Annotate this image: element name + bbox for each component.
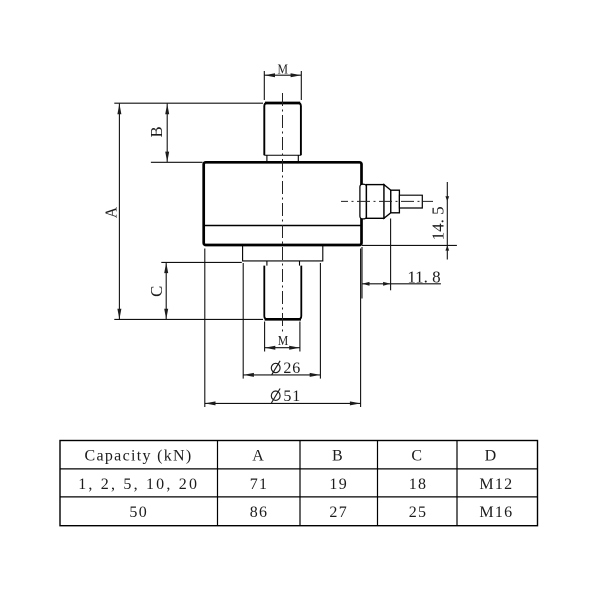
svg-text:86: 86 [250,504,269,521]
dimension 11.8 [362,219,441,299]
svg-text:C: C [147,286,166,297]
svg-text:1, 2, 5, 10, 20: 1, 2, 5, 10, 20 [78,476,199,493]
connector back flange [358,185,367,218]
table grid [60,441,538,526]
top stud neck [267,155,298,162]
svg-text:71: 71 [250,476,269,493]
svg-text:D: D [485,448,498,465]
extension line body top [151,161,203,163]
bottom boss (Ø26 collar) [243,245,323,261]
bottom stud (threaded end M) [264,266,301,320]
dimension M (bottom) [265,322,300,352]
svg-text:50: 50 [129,504,148,521]
svg-text:M16: M16 [479,504,513,521]
table row 1 [78,476,513,493]
svg-text:B: B [332,448,344,465]
svg-text:27: 27 [329,504,348,521]
svg-text:19: 19 [329,476,348,493]
svg-text:A: A [252,448,265,465]
dimension Ø26 [243,263,320,379]
dimension A [102,104,122,320]
load cell body outline [204,162,362,245]
svg-text:51: 51 [283,388,301,405]
svg-text:14. 5: 14. 5 [428,206,447,240]
connector center line [341,200,433,202]
svg-text:18: 18 [409,476,428,493]
connector cable stub [399,195,422,208]
body parting line [204,225,362,227]
extension line boss bottom [161,261,242,263]
svg-text:Capacity (kN): Capacity (kN) [85,448,193,465]
extension line stud top [114,102,263,104]
dimension B [147,104,169,163]
connector taper [384,185,391,219]
svg-text:M12: M12 [479,476,513,493]
vertical center line [282,93,284,333]
svg-text:11. 8: 11. 8 [407,267,440,286]
top stud (threaded end M) [264,103,301,155]
svg-text:25: 25 [409,504,428,521]
dimension 14.5 [362,182,457,260]
svg-text:B: B [147,126,166,137]
extension line stud bottom [114,318,263,320]
svg-text:26: 26 [283,360,301,377]
svg-text:C: C [411,448,423,465]
table header row [85,448,498,465]
dimension Ø51 [205,249,361,408]
table row 2 [129,504,513,521]
connector nut [391,190,400,213]
svg-text:M: M [277,60,288,76]
dimension C [147,262,168,319]
connector barrel [366,185,384,219]
dimension M (top) [264,71,301,100]
svg-text:A: A [102,207,121,218]
svg-text:M: M [278,332,289,348]
bottom stud neck [267,261,300,266]
